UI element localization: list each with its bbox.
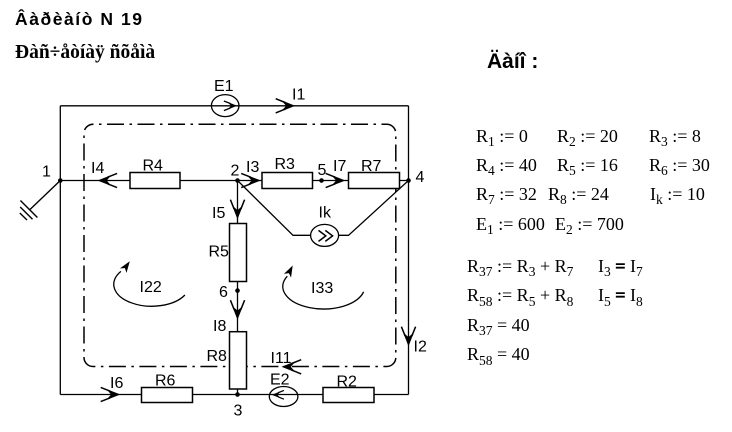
wire bottom xyxy=(60,394,408,396)
current arrow I2 xyxy=(401,327,427,356)
svg-text:I7: I7 xyxy=(333,158,346,175)
current source Ik xyxy=(311,205,339,247)
svg-text:R2: R2 xyxy=(337,374,358,391)
node 4 xyxy=(406,169,424,186)
math row 8 xyxy=(467,345,530,363)
wire Ik to node4 xyxy=(339,181,409,236)
math row 6 xyxy=(467,286,573,304)
mesh loop arrow I22 xyxy=(114,259,185,306)
current arrow I5 xyxy=(212,200,245,222)
resistor R5 xyxy=(209,224,247,282)
mesh loop arrow I33 xyxy=(283,264,364,309)
math row 7 xyxy=(467,316,530,334)
math row 5 xyxy=(467,257,573,275)
mesh boundary dashed loop xyxy=(84,124,396,366)
svg-text:R5: R5 xyxy=(209,244,230,261)
svg-text:6: 6 xyxy=(219,284,228,301)
current arrow I3 xyxy=(241,159,259,188)
svg-text:I22: I22 xyxy=(140,279,162,296)
wire left xyxy=(59,106,61,395)
current arrow I1 xyxy=(276,87,306,113)
node 2 xyxy=(231,163,240,183)
svg-text:I2: I2 xyxy=(414,339,427,356)
resistor R8 xyxy=(207,332,247,389)
svg-text:R8: R8 xyxy=(207,348,228,365)
wire node2 to Ik xyxy=(238,181,311,236)
svg-text:E2: E2 xyxy=(270,372,290,389)
svg-text:R6: R6 xyxy=(155,373,176,390)
current arrow I8 xyxy=(213,300,245,335)
svg-text:R3: R3 xyxy=(275,156,296,173)
svg-text:I4: I4 xyxy=(91,160,104,177)
svg-text:I3: I3 xyxy=(246,159,259,176)
svg-text:I33: I33 xyxy=(311,280,333,297)
math row 4 xyxy=(476,215,545,233)
math row 2 xyxy=(476,156,537,174)
svg-text:I1: I1 xyxy=(292,87,305,104)
svg-text:Ik: Ik xyxy=(319,205,332,222)
mesh current arrow I11 on dashed loop xyxy=(271,350,302,374)
svg-text:R7: R7 xyxy=(361,158,382,175)
node 3 xyxy=(234,392,243,419)
resistor R6 xyxy=(142,373,193,403)
svg-text:5: 5 xyxy=(318,162,327,179)
current arrow I6 xyxy=(101,375,124,402)
wire middle node1-node4 xyxy=(60,180,408,182)
EMF source E2 xyxy=(269,372,298,407)
svg-text:3: 3 xyxy=(234,403,243,420)
resistor R3 xyxy=(262,156,313,189)
math row 3 xyxy=(476,185,537,203)
title "Вариант N 19" (mojibake) xyxy=(15,10,144,29)
svg-text:E1: E1 xyxy=(214,78,234,95)
subtitle "Расчетная схема" (mojibake, serif bold) xyxy=(15,42,155,64)
math row 1 xyxy=(476,127,528,145)
node 5 xyxy=(318,162,327,183)
resistor R7 xyxy=(349,158,400,189)
current arrow I7 xyxy=(326,158,347,188)
resistor R2 xyxy=(323,374,374,403)
current arrow I4 xyxy=(91,160,117,188)
svg-text:2: 2 xyxy=(231,163,240,180)
svg-text:R4: R4 xyxy=(143,158,164,175)
wire top xyxy=(60,105,408,107)
svg-text:I8: I8 xyxy=(213,318,226,335)
EMF source E1 xyxy=(211,78,239,117)
svg-text:I6: I6 xyxy=(110,375,123,392)
svg-text:I11: I11 xyxy=(271,350,292,367)
svg-text:1: 1 xyxy=(42,164,51,181)
ground at node 1 xyxy=(20,181,61,221)
svg-text:4: 4 xyxy=(416,169,425,186)
node 1 xyxy=(42,164,63,183)
resistor R4 xyxy=(130,158,180,189)
header "Дано :" (mojibake, sans bold) xyxy=(487,51,538,73)
node 6 xyxy=(219,284,240,301)
svg-text:I5: I5 xyxy=(212,205,225,222)
wire right xyxy=(408,106,410,395)
wire branch node2-node3 xyxy=(237,181,239,395)
